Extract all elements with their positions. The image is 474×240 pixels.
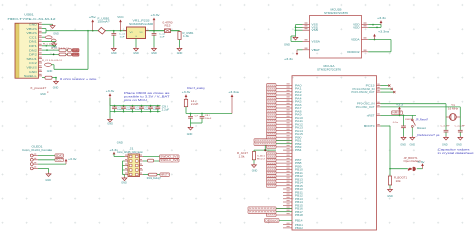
MCU1A pin row PB13: [283, 198, 292, 200]
svg-text:C_u1: C_u1: [119, 34, 126, 36]
resistor R_USB1: [179, 30, 181, 33]
svg-text:VO: VO: [140, 32, 143, 34]
svg-text:VBAT: VBAT: [312, 48, 321, 52]
MCU1A pin row PB13: [276, 178, 292, 180]
resistor R15 series element: [165, 29, 171, 33]
svg-text:GND: GND: [410, 144, 416, 146]
net label: [267, 181, 277, 184]
wire SHELL: [42, 77, 56, 79]
svg-text:NRST?: NRST?: [161, 173, 170, 176]
svg-text:VDD: VDD: [353, 25, 359, 29]
svg-text:g: g: [47, 92, 49, 94]
svg-text:PB4: PB4: [295, 148, 302, 152]
svg-text:R_C1 5.1k 4.2k 12: R_C1 5.1k 4.2k 12: [42, 60, 63, 62]
wire MCU1B VSS bus: [296, 24, 303, 26]
wire crystal right branch: [459, 107, 461, 129]
capacitor C_out_HF: [459, 129, 461, 130]
MCU1A pin row PA8: [276, 110, 292, 112]
svg-text:150mA?: 150mA?: [98, 21, 111, 24]
svg-text:GND: GND: [133, 53, 139, 55]
svg-text:XXXXXXXXX: XXXXXXXXX: [255, 140, 276, 142]
MCU1B pin VDDA: [362, 39, 369, 41]
wire MCU1B VDD bus: [368, 24, 381, 26]
wire to R_USB1: [171, 30, 180, 32]
ground under decoupling bank: [108, 118, 113, 122]
wire DN2 to label: [42, 49, 72, 51]
net label: [267, 84, 277, 87]
net label SWDIO: [160, 155, 180, 158]
svg-text:GND: GND: [111, 53, 117, 55]
supply +3.3VA output: [231, 97, 233, 114]
svg-text:XXXX: XXXX: [267, 179, 276, 181]
svg-text:C7: C7: [195, 116, 199, 118]
svg-text:PC15-OSC32_OUT: PC15-OSC32_OUT: [351, 91, 375, 94]
svg-text:Conn_02x05_Odd_Even: Conn_02x05_Odd_Even: [117, 150, 143, 154]
MCU1A pin row PB15: [276, 185, 292, 187]
net label: [267, 103, 277, 106]
svg-text:Conn_01x04_Female: Conn_01x04_Female: [22, 148, 53, 152]
ground under R_CC1: [52, 43, 57, 47]
resistor R_CC2 pulldown: [45, 63, 52, 66]
svg-text:GND: GND: [151, 53, 157, 55]
net label: [267, 100, 277, 103]
MCU1A pin row PB5: [276, 152, 292, 154]
ground under VR1: [134, 47, 139, 51]
svg-text:XXXX: XXXX: [267, 186, 276, 188]
svg-text:Filter X_analog: Filter X_analog: [187, 86, 205, 90]
capacitor C1: [113, 31, 115, 34]
ground under shield: [54, 80, 59, 84]
wire J1 SWDIO: [143, 156, 160, 158]
net label USB_DP: [72, 49, 79, 52]
MCU1A pin row PB0: [276, 136, 292, 138]
capacitor C5 100nF: [132, 106, 134, 107]
wire DP1: [42, 45, 56, 47]
MCU1A pin nRST: [377, 114, 381, 116]
wire VBUS rail: [42, 28, 46, 30]
svg-text:GND: GND: [284, 44, 290, 47]
supply +5V: [92, 22, 94, 31]
wire DP2 to label: [42, 53, 72, 55]
fuse F_USB1 symbol: [98, 27, 105, 34]
capacitor C7: [190, 114, 192, 117]
net label NRST: [392, 111, 403, 115]
MCU1A pin row PA7: [276, 107, 292, 109]
MCU1A pin row PA3: [276, 94, 292, 96]
svg-text:R12.2: R12.2: [257, 158, 266, 160]
svg-text:+5v: +5v: [89, 17, 98, 19]
wire bank left vertical: [109, 98, 111, 118]
ground under C_in_HF: [444, 136, 449, 140]
MCU1A pin row PB1: [276, 139, 292, 141]
wire BOOT0 down: [381, 125, 391, 127]
net label: [267, 168, 277, 171]
MCU1A pin row PA15: [276, 133, 292, 135]
wire filter rail: [185, 107, 187, 114]
capacitor reset debounce: [403, 115, 405, 123]
svg-text:_Debounce? µs: _Debounce? µs: [414, 133, 440, 137]
svg-text:XXXXXXXXX: XXXXXXXXX: [249, 211, 276, 213]
net label: [267, 132, 277, 135]
wire DN1: [42, 41, 56, 43]
supply +3.3V at jumper: [422, 166, 424, 169]
MCU1A pin row PA10: [276, 117, 292, 119]
svg-text:XXXX: XXXX: [267, 117, 276, 119]
net label: [267, 113, 277, 116]
svg-text:2.2uF: 2.2uF: [162, 109, 170, 111]
MCU1A pin row PB7: [276, 159, 292, 161]
net label: [267, 136, 277, 139]
net label SCL: [55, 158, 64, 161]
svg-text:NRST: NRST: [392, 111, 402, 115]
wire R_AC1 to ground: [253, 160, 255, 164]
svg-text:GND: GND: [117, 142, 123, 145]
MCU1A pin PF1-OSC_OUT: [377, 106, 381, 108]
MCU1A pin row PA13: [276, 126, 292, 128]
svg-text:+3.3v: +3.3v: [109, 150, 119, 152]
solder jumper JP_BOOT1: [408, 168, 412, 171]
supply +3.3V filter input: [185, 97, 187, 100]
net label wide: [248, 207, 276, 210]
wire J1 left ground bus: [122, 161, 124, 175]
svg-text:in crystal datasheet: in crystal datasheet: [438, 151, 474, 155]
svg-text:VDDA: VDDA: [351, 38, 360, 42]
svg-text:X_press1?: X_press1?: [30, 87, 47, 90]
svg-text:VSS: VSS: [312, 28, 318, 32]
MCU1A pin row PB11: [283, 191, 292, 193]
net label: [267, 158, 277, 161]
ground under J1: [122, 177, 127, 181]
net label: [267, 213, 277, 216]
svg-text:+3.3v: +3.3v: [284, 58, 294, 61]
OLED1 pin 3: [30, 163, 33, 166]
MCU1A pin PF0-OSC_IN: [377, 103, 381, 105]
net label USB_DM: [72, 53, 79, 56]
capacitor C4 100nF: [123, 106, 125, 107]
svg-text:1.5k: 1.5k: [239, 155, 246, 158]
J1 pin row 5: [125, 174, 129, 176]
svg-text:SWDIO_3V3: SWDIO_3V3: [160, 155, 179, 158]
svg-text:100nF: 100nF: [205, 118, 212, 120]
wire OLED SDA: [38, 155, 55, 157]
svg-text:C9 /: C9 /: [162, 106, 169, 108]
MCU1A pin row PB10: [276, 169, 292, 171]
svg-text:1.3k: 1.3k: [183, 36, 190, 38]
green loop vertical from VBUS: [87, 31, 89, 70]
svg-text:0.47R0: 0.47R0: [163, 22, 174, 24]
svg-text:DM: DM: [73, 54, 79, 56]
ground under R_BOOT1: [388, 188, 393, 192]
svg-text:C_out_HF: C_out_HF: [455, 124, 466, 127]
OLED1 pin 2: [30, 158, 33, 161]
switch SW_Reset: [411, 115, 413, 119]
MCU1A pin row PB9: [276, 165, 292, 167]
wire jumper to supply: [417, 168, 423, 170]
MCU1A pin row PB14: [283, 201, 292, 203]
wire J1 SWCLK: [143, 160, 160, 162]
svg-text:BOOT0: BOOT0: [364, 125, 375, 128]
svg-text:STM32F072C8T6: STM32F072C8T6: [317, 68, 341, 72]
net label: [267, 97, 277, 100]
svg-text:pins on MCU: pins on MCU: [124, 98, 147, 102]
crystal Y1 symbol: [446, 116, 450, 118]
svg-text:Reset: Reset: [417, 126, 426, 130]
svg-text:1uF: 1uF: [120, 37, 126, 39]
svg-text:XXXX: XXXX: [267, 215, 276, 217]
wire MCU1B VBAT: [297, 49, 303, 51]
svg-text:1uF: 1uF: [160, 37, 166, 39]
svg-text:100nF: 100nF: [135, 109, 142, 111]
svg-text:XXXX: XXXX: [267, 147, 276, 149]
svg-text:+3.3v: +3.3v: [377, 18, 387, 20]
svg-text:XXXX: XXXX: [267, 166, 276, 168]
capacitor C3 100nF: [114, 106, 116, 107]
wire OLED power: [38, 163, 66, 165]
MCU1A pin row PA6: [276, 104, 292, 106]
supply +3.3V VDD: [380, 23, 382, 25]
OLED1 pin 1: [30, 154, 33, 157]
net label wide: [248, 210, 276, 213]
resistor R_D2: [59, 53, 66, 56]
svg-text:GND: GND: [187, 134, 193, 136]
wire J1 reset row: [143, 174, 149, 176]
MCU1A pin PC14-OSC32_IN: [377, 88, 381, 90]
MCU1A pin row PB6: [276, 156, 292, 158]
svg-text:3.3v: 3.3v: [418, 162, 426, 164]
svg-text:PB18: PB18: [295, 213, 304, 217]
svg-text:GND: GND: [456, 144, 462, 146]
net label wide: [254, 142, 276, 145]
capacitor C2: [153, 31, 155, 34]
MCU1A pin row PB3: [276, 146, 292, 148]
MCU1A pin PC15-OSC32_OUT: [377, 91, 381, 93]
ground MCU1B: [293, 36, 298, 40]
capacitor C8: [201, 114, 203, 117]
wire MCU1B VSSA: [291, 40, 303, 42]
svg-text:0 ohm resistor + wire: 0 ohm resistor + wire: [60, 77, 97, 81]
ground under C2: [152, 47, 157, 51]
svg-text:SWCLK_3V3: SWCLK_3V3: [160, 159, 179, 162]
MCU1A pin row PA11: [276, 120, 292, 122]
supply +3.3V OLED: [65, 161, 67, 164]
svg-text:SC6206PxxxMR: SC6206PxxxMR: [129, 23, 153, 26]
svg-text:+3.3: +3.3: [396, 104, 404, 106]
connector J1 body: [128, 154, 140, 177]
J1 pin row 1: [125, 156, 129, 158]
svg-text:X_AC1: X_AC1: [257, 154, 266, 157]
MCU1B pin VDD: [362, 26, 369, 28]
supply +3.3V at regulator output: [153, 20, 155, 31]
net label: [267, 184, 277, 187]
svg-text:+3.3v: +3.3v: [68, 159, 78, 161]
MCU1A pin row PB4: [283, 149, 292, 151]
MCU1A pin row PB17: [276, 211, 292, 213]
ground under R_AC1: [252, 164, 257, 168]
svg-text:R10k_Debug?: R10k_Debug?: [147, 178, 162, 180]
net label: [267, 123, 277, 126]
wire BOOT0 to jumper: [390, 168, 408, 170]
svg-text:HRO-TYPE-C-31-M-12: HRO-TYPE-C-31-M-12: [8, 17, 56, 21]
svg-text:nRST: nRST: [367, 114, 375, 117]
supply +3.3V VBAT: [296, 53, 298, 55]
MCU1A pin PC13: [377, 85, 381, 87]
svg-text:10k: 10k: [396, 180, 402, 183]
svg-text:XXXX: XXXX: [267, 111, 276, 113]
svg-text:SCL?: SCL?: [56, 160, 64, 162]
svg-text:XXXX: XXXX: [267, 156, 276, 158]
svg-text:L1 /: L1 /: [191, 101, 197, 103]
svg-text:+3.3v: +3.3v: [151, 15, 161, 17]
svg-text:SHELL: SHELL: [24, 74, 37, 78]
svg-text:XXXX: XXXX: [267, 88, 276, 90]
svg-text:VDDIO2: VDDIO2: [347, 50, 360, 54]
MCU1A pin BOOT0: [377, 125, 381, 127]
net label NRST at J1: [160, 173, 170, 176]
wire PF0 to crystal: [381, 103, 447, 105]
net label: [267, 155, 277, 158]
MCU1A pin row PA5: [276, 101, 292, 103]
svg-text:XXXX: XXXX: [267, 95, 276, 97]
wire decoupling top rail: [110, 105, 161, 107]
MCU1A pin row PB8: [276, 162, 292, 164]
supply +3.3V decoupling bank: [109, 96, 111, 106]
svg-text:VCC: VCC: [117, 17, 124, 19]
green loop bottom wire: [54, 68, 88, 70]
MCU1A pin row PB111: [283, 224, 292, 226]
MCU1A pin row PA1: [276, 88, 292, 90]
svg-text:GND: GND: [53, 88, 59, 90]
svg-text:GND: GND: [400, 144, 406, 146]
MCU1A pin row PB15: [283, 204, 292, 206]
wire GND pin to ground: [42, 23, 53, 25]
resistor R_BOOT1: [388, 176, 391, 185]
net label: [267, 162, 277, 165]
svg-text:GND: GND: [252, 171, 258, 173]
MCU1A pin row PA4: [276, 97, 292, 99]
MCU1B pin VSS: [303, 26, 310, 28]
ground under C_out_HF: [458, 136, 463, 140]
net label: [267, 165, 277, 168]
capacitor C7 100nF: [150, 106, 152, 107]
net label DEBUG: [265, 219, 280, 223]
MCU1A pin row PA12: [276, 123, 292, 125]
J1 pin row 2: [125, 160, 129, 162]
svg-text:100nF: 100nF: [117, 109, 124, 111]
svg-text:0.1u: 0.1u: [393, 122, 399, 124]
resistor R_D2b: [68, 53, 72, 56]
svg-text:PB112: PB112: [295, 226, 304, 230]
net label: [267, 152, 277, 155]
MCU1A pin row PB12: [276, 175, 292, 177]
wire OLED SCL: [38, 159, 55, 161]
svg-text:+3.3v: +3.3v: [182, 92, 192, 94]
wire DEBUG to pin: [279, 219, 292, 221]
MCU1B pin VSS: [303, 24, 310, 26]
IC MCU1B body: [310, 16, 362, 59]
J1 pin row 4: [125, 169, 129, 171]
MCU1A pin row PA14: [276, 130, 292, 132]
svg-text:DEBUG: DEBUG: [265, 218, 278, 222]
wire PC13 no-connect: [381, 85, 389, 87]
ground under R_USB1: [177, 47, 182, 51]
svg-text:GND: GND: [121, 182, 127, 184]
svg-text:+3.3v: +3.3v: [106, 91, 116, 93]
svg-text:R_u 22: R_u 22: [43, 43, 53, 45]
ground under C1: [111, 47, 116, 51]
svg-text:GND: GND: [45, 180, 51, 182]
svg-text:C_in_HF: C_in_HF: [441, 125, 451, 127]
svg-text:R_USB1: R_USB1: [183, 33, 195, 35]
net label: [267, 145, 277, 148]
capacitor C6 100nF: [141, 106, 143, 107]
MCU1A pin row PB11: [276, 172, 292, 174]
net label: [267, 119, 277, 122]
net label: [267, 178, 277, 181]
svg-text:PB14: PB14: [295, 219, 303, 222]
MCU1A pin row PB112: [283, 227, 292, 229]
MCU1A pin row PB14: [276, 182, 292, 184]
net label: [267, 116, 277, 119]
MCU1A pin row PA2: [276, 91, 292, 93]
inductor L1: [184, 99, 187, 106]
MCU1A pin row PB12: [283, 195, 292, 197]
supply +3.3V pullup: [399, 109, 401, 116]
wire PC14 no-connect: [381, 88, 392, 90]
svg-text:XXXX: XXXX: [267, 101, 276, 103]
svg-text:100nF: 100nF: [144, 109, 151, 111]
supply VCC: [120, 22, 122, 31]
resistor small near J1: [148, 159, 154, 162]
MCU1A pin row PA9: [276, 114, 292, 116]
net label: [267, 171, 277, 174]
wire regulator output: [149, 30, 165, 32]
net label SWCLK: [160, 159, 180, 162]
MCU1B pin VSS: [303, 29, 310, 31]
svg-text:STM32F072C8T6: STM32F072C8T6: [324, 11, 348, 15]
svg-text:+3.3va: +3.3va: [378, 32, 390, 34]
wire filter caps to ground: [190, 122, 192, 124]
svg-text:16 MHz: 16 MHz: [448, 107, 459, 110]
resistor R_CC1 pulldown: [42, 36, 45, 38]
net label wide: [254, 139, 276, 142]
svg-text:PF1-OSC_OUT: PF1-OSC_OUT: [356, 106, 375, 109]
wire PF1 to crystal: [381, 106, 461, 108]
wire nRST: [381, 114, 417, 116]
wire R_BOOT1 to ground: [389, 185, 391, 188]
MCU1A pin row PB18: [276, 214, 292, 216]
net label: [267, 87, 277, 90]
svg-text:GND: GND: [40, 94, 46, 96]
IC MCU1A body: [292, 76, 377, 230]
ground under switch: [410, 136, 415, 140]
svg-text:R15: R15: [165, 26, 172, 28]
wire crystal left branch: [445, 104, 447, 130]
ground under OLED: [46, 173, 51, 177]
net label: [267, 175, 277, 178]
regulator VR1 pins: [123, 30, 127, 32]
J1 pin row 3: [125, 165, 129, 167]
OLED1 pin 4: [30, 167, 33, 170]
svg-text:GND: GND: [387, 196, 393, 198]
supply +3.3V J1: [113, 152, 115, 154]
wire decoupling bottom rail: [110, 111, 161, 113]
svg-text:100nF: 100nF: [153, 109, 160, 111]
MCU1A pin row PB10: [283, 188, 292, 190]
svg-text:GND: GND: [107, 124, 113, 126]
net label SDA: [55, 154, 64, 157]
svg-text:+3.3va: +3.3va: [228, 92, 240, 94]
svg-text:VSSA: VSSA: [312, 39, 321, 43]
